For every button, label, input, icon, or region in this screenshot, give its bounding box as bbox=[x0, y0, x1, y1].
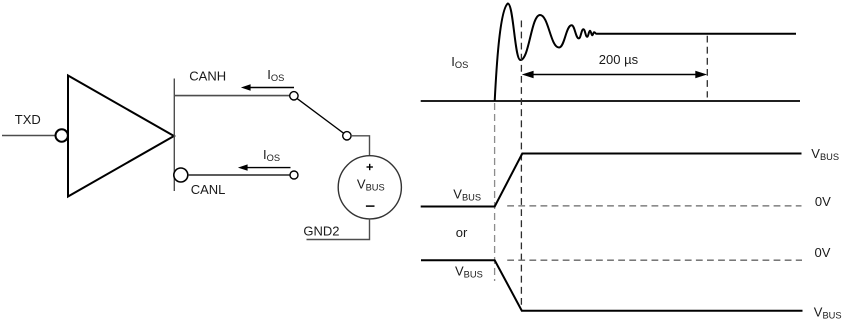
inverter bubble CANL bbox=[174, 168, 188, 182]
wire CANH bbox=[174, 95, 289, 97]
svg-text:TXD: TXD bbox=[15, 112, 41, 127]
Ios ringing waveform bbox=[495, 4, 796, 102]
wire switch to source bbox=[351, 136, 369, 156]
VBUS falling trace bbox=[421, 260, 803, 310]
svg-text:CANH: CANH bbox=[189, 69, 226, 84]
op-amp driver U1 triangle bbox=[68, 76, 174, 197]
svg-text:CANL: CANL bbox=[191, 182, 226, 197]
svg-text:or: or bbox=[456, 225, 468, 240]
wire source to GND2 bbox=[307, 219, 370, 240]
arrow Ios bottom bbox=[247, 167, 291, 169]
switch blade bbox=[297, 98, 344, 133]
svg-text:VBUS: VBUS bbox=[814, 305, 842, 321]
node CANL switch terminal bbox=[290, 171, 298, 179]
wire TXD input bbox=[2, 135, 56, 137]
svg-text:VBUS: VBUS bbox=[811, 146, 839, 162]
Ios zero baseline bbox=[421, 100, 800, 102]
svg-text:IOS: IOS bbox=[263, 147, 280, 163]
dashed vertical line t1 bbox=[520, 21, 522, 311]
svg-text:IOS: IOS bbox=[451, 54, 468, 70]
inverter bubble on driver input bbox=[56, 129, 68, 141]
svg-text:0V: 0V bbox=[815, 245, 831, 260]
voltage source VBUS bbox=[338, 156, 401, 219]
dashed 0V line mid bbox=[507, 205, 801, 207]
node switch pole bbox=[343, 132, 351, 140]
svg-text:VBUS: VBUS bbox=[453, 187, 481, 203]
svg-text:GND2: GND2 bbox=[303, 224, 339, 239]
wire output bus vertical bbox=[173, 79, 175, 192]
svg-text:0V: 0V bbox=[815, 194, 831, 209]
arrow 200us span bbox=[533, 74, 696, 76]
VBUS rising trace bbox=[421, 154, 802, 207]
svg-text:200 µs: 200 µs bbox=[599, 52, 639, 67]
dashed vertical line t0 bbox=[494, 103, 496, 281]
svg-text:VBUS: VBUS bbox=[455, 264, 483, 280]
node CANH switch terminal bbox=[290, 92, 298, 100]
svg-text:IOS: IOS bbox=[267, 67, 284, 83]
arrow Ios top bbox=[250, 87, 294, 89]
dashed vertical line t2 bbox=[706, 36, 708, 98]
wire CANL bbox=[188, 174, 290, 176]
dashed 0V line bottom bbox=[507, 259, 802, 261]
